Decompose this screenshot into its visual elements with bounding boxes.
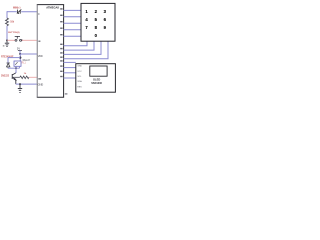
wire VDD to chip <box>20 53 37 55</box>
svg-text:SDA: SDA <box>77 80 82 83</box>
OLED screen <box>90 66 107 76</box>
label under chip <box>65 93 68 94</box>
wire resistor to node <box>6 26 8 41</box>
keypad wires group A <box>64 10 82 36</box>
ground G2 <box>18 84 22 92</box>
svg-text:2N2222: 2N2222 <box>1 75 10 77</box>
junction relay top <box>19 57 21 59</box>
wire button to chip pink <box>22 39 38 41</box>
switch SW1 <box>17 9 21 13</box>
transistor Q1 <box>12 73 16 84</box>
wire base to chip pink <box>29 76 37 78</box>
diode D1 <box>7 63 10 68</box>
keypad box <box>81 3 115 41</box>
junction at button <box>21 39 23 41</box>
svg-text:RL1: RL1 <box>22 63 27 65</box>
svg-text:5V: 5V <box>17 46 20 50</box>
base wire <box>12 76 20 78</box>
relay RL1 coil box <box>14 61 21 66</box>
pin name T0 <box>38 41 40 42</box>
svg-text:VDD: VDD <box>38 55 43 58</box>
svg-text:GND: GND <box>77 66 82 68</box>
keypad wires group B L-shapes <box>64 41 109 58</box>
svg-text:GND: GND <box>38 83 44 87</box>
label misc <box>3 45 5 46</box>
keypad digits row 1 <box>85 9 106 38</box>
svg-text:RES: RES <box>77 86 82 88</box>
wire reset right <box>21 11 37 13</box>
svg-text:ATMEGA8: ATMEGA8 <box>46 6 59 10</box>
MCU U1 box <box>37 4 64 98</box>
wire GND rail <box>16 83 38 85</box>
button SW2 <box>15 36 22 41</box>
wire to diode <box>7 57 9 63</box>
svg-text:VCC: VCC <box>77 71 82 73</box>
wire relay rail <box>8 57 20 59</box>
resistor R1 <box>6 18 9 26</box>
wire reset left <box>7 11 17 13</box>
junction VDD <box>19 53 21 55</box>
junction collector <box>15 67 17 69</box>
right pin name smudges inside chip <box>60 8 62 77</box>
ground G1 <box>5 40 9 46</box>
junction GND <box>19 83 21 85</box>
resistor R2 <box>20 76 29 79</box>
wire node down <box>6 11 8 18</box>
wire diode-relay bottom <box>8 67 20 69</box>
svg-text:MIN(+): MIN(+) <box>13 6 21 9</box>
svg-text:SSD1306: SSD1306 <box>91 82 102 85</box>
pin name B0 <box>38 78 41 79</box>
wire collector <box>15 68 17 73</box>
oled wires group C <box>64 62 76 78</box>
wire VDD down to relay <box>19 54 21 61</box>
junction node A <box>6 39 8 41</box>
power symbol <box>18 49 22 51</box>
relay pins <box>15 66 17 68</box>
wire button left pink <box>7 39 15 41</box>
svg-text:BUTTON(2): BUTTON(2) <box>8 32 19 34</box>
OLED module box <box>76 64 116 92</box>
